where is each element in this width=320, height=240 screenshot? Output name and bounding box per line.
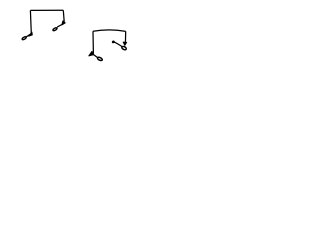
switch S3 lever — [93, 54, 97, 57]
wire: figure 2 top horizontal (slight upward bow) — [93, 30, 126, 31]
switch S2 lever — [57, 25, 62, 28]
arrowhead at figure 2 left wire end — [89, 51, 94, 56]
background — [0, 0, 150, 71]
wire: figure 1 left vertical — [29, 10, 32, 33]
wire: figure 1 top horizontal — [30, 9, 63, 11]
wire: figure 2 right vertical — [124, 31, 126, 43]
switch S2 terminal ellipse — [52, 27, 57, 31]
switch S1 terminal ellipse — [22, 36, 27, 40]
arrowhead at figure 2 right wire end — [123, 42, 126, 45]
switch S4 lever — [113, 42, 122, 47]
arrowhead at figure 1 left wire end — [29, 32, 33, 36]
wire: figure 2 left vertical — [92, 31, 94, 54]
arrowhead at figure 1 right wire end — [62, 21, 65, 25]
switch S1 lever — [27, 34, 31, 37]
wire: figure 1 right vertical — [62, 10, 65, 21]
switch S3 terminal ellipse — [97, 57, 103, 62]
hook blob at switch S4 lever end — [112, 40, 115, 43]
switch S4 terminal ellipse — [121, 46, 127, 51]
